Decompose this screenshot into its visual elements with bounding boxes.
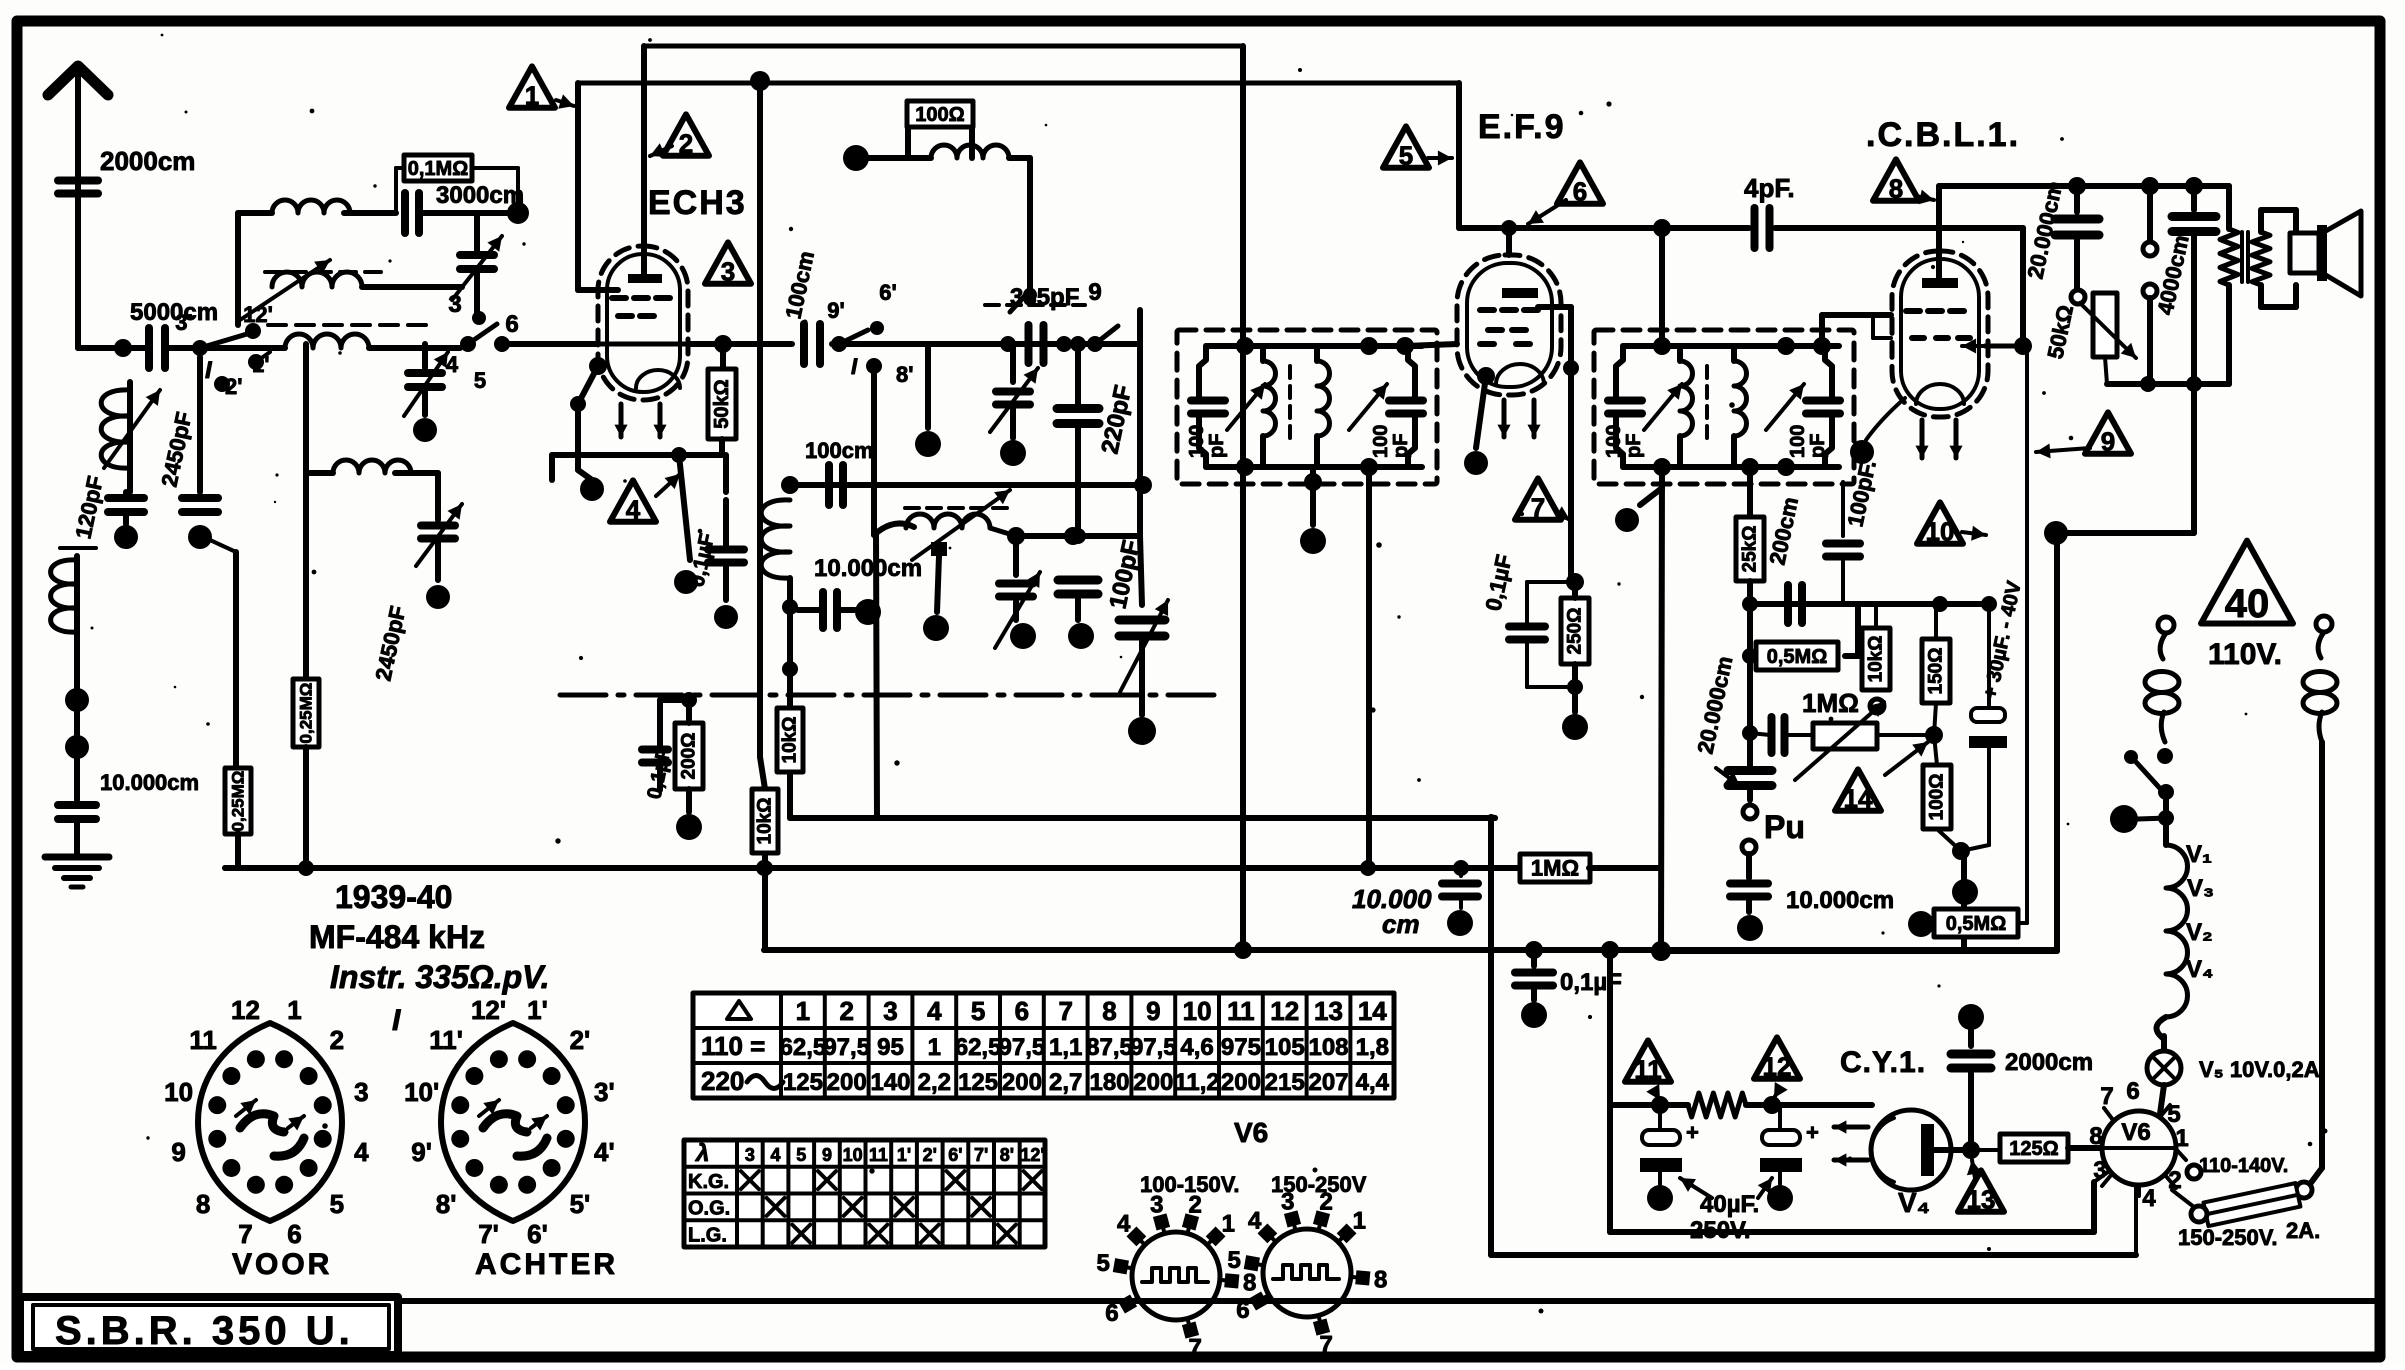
svg-text:1': 1' bbox=[527, 995, 548, 1025]
svg-text:215: 215 bbox=[1265, 1069, 1305, 1096]
svg-text:4: 4 bbox=[771, 1145, 781, 1165]
svg-text:8: 8 bbox=[1889, 173, 1903, 203]
svg-text:+: + bbox=[1686, 1120, 1699, 1145]
svg-text:14: 14 bbox=[1844, 783, 1873, 813]
svg-text:10.000cm: 10.000cm bbox=[100, 770, 199, 795]
svg-text:1939-40: 1939-40 bbox=[335, 879, 452, 915]
svg-text:10.000cm: 10.000cm bbox=[1786, 887, 1894, 914]
svg-text:V₂: V₂ bbox=[2186, 919, 2213, 946]
svg-text:cm: cm bbox=[1382, 909, 1420, 939]
svg-text:4pF.: 4pF. bbox=[1744, 173, 1795, 203]
svg-text:8': 8' bbox=[896, 362, 913, 387]
svg-text:10kΩ: 10kΩ bbox=[1866, 636, 1887, 683]
svg-text:13: 13 bbox=[1314, 996, 1343, 1026]
svg-text:200: 200 bbox=[1133, 1069, 1173, 1096]
svg-text:4: 4 bbox=[1117, 1211, 1131, 1238]
svg-text:1,8: 1,8 bbox=[1356, 1034, 1389, 1061]
svg-text:3': 3' bbox=[175, 310, 192, 335]
svg-text:2: 2 bbox=[1188, 1192, 1201, 1219]
svg-text:108: 108 bbox=[1308, 1034, 1348, 1061]
svg-text:125: 125 bbox=[958, 1069, 998, 1096]
svg-text:105: 105 bbox=[1265, 1034, 1305, 1061]
svg-text:4: 4 bbox=[354, 1137, 369, 1167]
svg-text:9': 9' bbox=[827, 298, 844, 323]
svg-text:pF: pF bbox=[1390, 434, 1412, 458]
svg-text:8: 8 bbox=[196, 1189, 210, 1219]
svg-text:1: 1 bbox=[1222, 1211, 1235, 1238]
svg-text:207: 207 bbox=[1308, 1069, 1348, 1096]
svg-text:11: 11 bbox=[869, 1145, 888, 1165]
svg-text:1: 1 bbox=[928, 1034, 941, 1061]
svg-text:0,1MΩ: 0,1MΩ bbox=[408, 158, 469, 180]
svg-text:250V.: 250V. bbox=[1690, 1217, 1751, 1244]
svg-text:2,2: 2,2 bbox=[918, 1069, 951, 1096]
svg-text:12': 12' bbox=[1020, 1145, 1044, 1165]
svg-text:200: 200 bbox=[1002, 1069, 1042, 1096]
svg-text:C.Y.1.: C.Y.1. bbox=[1840, 1046, 1926, 1079]
svg-text:2: 2 bbox=[1319, 1189, 1332, 1216]
svg-text:ECH3: ECH3 bbox=[648, 184, 747, 222]
svg-text:1: 1 bbox=[525, 80, 539, 110]
svg-text:pF: pF bbox=[1206, 434, 1228, 458]
svg-text:97,5: 97,5 bbox=[823, 1034, 870, 1061]
svg-text:8: 8 bbox=[1243, 1269, 1256, 1296]
svg-text:V6: V6 bbox=[1234, 1117, 1268, 1148]
svg-text:50kΩ: 50kΩ bbox=[711, 379, 733, 428]
svg-text:7': 7' bbox=[478, 1219, 499, 1249]
svg-text:S.B.R. 350 U.: S.B.R. 350 U. bbox=[55, 1309, 354, 1353]
svg-text:7': 7' bbox=[974, 1145, 988, 1165]
svg-text:9': 9' bbox=[411, 1137, 432, 1167]
svg-text:V₃: V₃ bbox=[2187, 875, 2214, 902]
svg-text:3: 3 bbox=[721, 256, 735, 286]
svg-text:180: 180 bbox=[1089, 1069, 1129, 1096]
svg-text:95: 95 bbox=[877, 1034, 904, 1061]
svg-text:1': 1' bbox=[897, 1145, 911, 1165]
svg-text:1MΩ: 1MΩ bbox=[1802, 688, 1859, 718]
svg-text:9: 9 bbox=[1088, 279, 1101, 306]
svg-text:100: 100 bbox=[1370, 425, 1392, 458]
svg-text:11': 11' bbox=[429, 1025, 463, 1055]
svg-text:12: 12 bbox=[1763, 1051, 1792, 1081]
svg-text:2: 2 bbox=[679, 128, 693, 158]
svg-text:5: 5 bbox=[971, 996, 985, 1026]
svg-text:220: 220 bbox=[701, 1066, 744, 1096]
svg-text:10kΩ: 10kΩ bbox=[755, 798, 776, 845]
svg-text:2': 2' bbox=[570, 1025, 591, 1055]
svg-text:VOOR: VOOR bbox=[232, 1248, 332, 1281]
svg-text:3': 3' bbox=[594, 1077, 615, 1107]
svg-text:6: 6 bbox=[2126, 1078, 2139, 1105]
svg-text:2A.: 2A. bbox=[2286, 1218, 2320, 1243]
svg-text:4,6: 4,6 bbox=[1180, 1034, 1213, 1061]
svg-text:E.F.9: E.F.9 bbox=[1478, 108, 1565, 146]
svg-text:97,5: 97,5 bbox=[1130, 1034, 1177, 1061]
svg-text:5: 5 bbox=[796, 1145, 806, 1165]
svg-text:110 =: 110 = bbox=[701, 1031, 765, 1061]
svg-text:2,7: 2,7 bbox=[1049, 1069, 1082, 1096]
svg-text:11: 11 bbox=[189, 1025, 217, 1055]
svg-text:3000cm: 3000cm bbox=[436, 182, 524, 209]
svg-text:7: 7 bbox=[1531, 492, 1545, 522]
svg-text:110V.: 110V. bbox=[2208, 638, 2282, 671]
svg-text:V₅ 10V.0,2A: V₅ 10V.0,2A bbox=[2199, 1057, 2320, 1082]
svg-text:9: 9 bbox=[822, 1145, 832, 1165]
svg-text:2000cm: 2000cm bbox=[100, 146, 195, 176]
svg-text:1,1: 1,1 bbox=[1049, 1034, 1082, 1061]
svg-text:0,25MΩ: 0,25MΩ bbox=[297, 683, 316, 744]
svg-text:6: 6 bbox=[287, 1219, 301, 1249]
svg-text:Pu: Pu bbox=[1764, 809, 1805, 845]
svg-text:6': 6' bbox=[527, 1219, 548, 1249]
svg-text:6: 6 bbox=[1015, 996, 1029, 1026]
svg-text:4: 4 bbox=[2142, 1185, 2156, 1212]
svg-text:ACHTER: ACHTER bbox=[475, 1248, 618, 1281]
svg-text:100: 100 bbox=[1787, 425, 1809, 458]
svg-text:62,5: 62,5 bbox=[955, 1034, 1002, 1061]
svg-text:10: 10 bbox=[164, 1077, 193, 1107]
svg-text:+: + bbox=[1806, 1120, 1819, 1145]
svg-text:4: 4 bbox=[1248, 1208, 1262, 1235]
svg-text:L.G.: L.G. bbox=[688, 1224, 727, 1246]
svg-text:O.G.: O.G. bbox=[688, 1198, 730, 1220]
svg-text:6': 6' bbox=[948, 1145, 962, 1165]
svg-text:8: 8 bbox=[1374, 1266, 1387, 1293]
svg-text:0,25MΩ: 0,25MΩ bbox=[229, 771, 248, 832]
svg-text:V₄: V₄ bbox=[2186, 956, 2213, 983]
svg-text:150-250V.: 150-250V. bbox=[2178, 1225, 2278, 1250]
svg-text:87,5: 87,5 bbox=[1086, 1034, 1133, 1061]
svg-text:7: 7 bbox=[1058, 996, 1072, 1026]
svg-text:10.000cm: 10.000cm bbox=[814, 555, 922, 582]
svg-text:125Ω: 125Ω bbox=[2009, 1138, 2058, 1160]
svg-text:975: 975 bbox=[1221, 1034, 1261, 1061]
svg-text:I: I bbox=[851, 354, 858, 379]
svg-text:1MΩ: 1MΩ bbox=[1531, 856, 1579, 881]
svg-text:1: 1 bbox=[287, 995, 301, 1025]
svg-text:14: 14 bbox=[1358, 996, 1387, 1026]
svg-text:8: 8 bbox=[1102, 996, 1116, 1026]
svg-text:4': 4' bbox=[594, 1137, 615, 1167]
svg-text:3: 3 bbox=[883, 996, 897, 1026]
svg-text:9: 9 bbox=[2101, 426, 2115, 456]
svg-text:2: 2 bbox=[330, 1025, 344, 1055]
svg-text:200: 200 bbox=[827, 1069, 867, 1096]
svg-text:12': 12' bbox=[471, 995, 506, 1025]
svg-text:5000cm: 5000cm bbox=[130, 299, 218, 326]
svg-text:11,2: 11,2 bbox=[1174, 1069, 1219, 1096]
svg-text:5: 5 bbox=[330, 1189, 344, 1219]
svg-text:7: 7 bbox=[2100, 1083, 2113, 1110]
svg-text:11: 11 bbox=[1634, 1054, 1662, 1084]
svg-text:110-140V.: 110-140V. bbox=[2199, 1155, 2288, 1177]
svg-text:V₄: V₄ bbox=[1898, 1187, 1930, 1218]
svg-text:100: 100 bbox=[1603, 425, 1625, 458]
svg-text:5: 5 bbox=[2167, 1101, 2180, 1128]
svg-text:25kΩ: 25kΩ bbox=[1740, 526, 1761, 573]
svg-text:7: 7 bbox=[1188, 1334, 1201, 1361]
svg-text:150Ω: 150Ω bbox=[1926, 648, 1947, 695]
svg-text:100: 100 bbox=[1186, 425, 1208, 458]
svg-text:13: 13 bbox=[1967, 1184, 1996, 1214]
svg-text:1: 1 bbox=[796, 996, 810, 1026]
svg-text:5': 5' bbox=[570, 1189, 591, 1219]
svg-text:6: 6 bbox=[1573, 176, 1587, 206]
svg-text:6': 6' bbox=[879, 280, 896, 305]
svg-text:100Ω: 100Ω bbox=[915, 104, 964, 126]
svg-text:40: 40 bbox=[2225, 582, 2270, 626]
svg-text:2': 2' bbox=[923, 1145, 937, 1165]
svg-text:K.G.: K.G. bbox=[688, 1171, 729, 1193]
svg-text:5: 5 bbox=[1399, 140, 1413, 170]
svg-text:4: 4 bbox=[927, 996, 942, 1026]
svg-text:pF: pF bbox=[1807, 434, 1829, 458]
svg-text:200Ω: 200Ω bbox=[679, 733, 700, 780]
svg-text:8': 8' bbox=[1000, 1145, 1014, 1165]
svg-text:V6: V6 bbox=[2121, 1119, 2150, 1146]
svg-text:12: 12 bbox=[1270, 996, 1299, 1026]
svg-text:125: 125 bbox=[783, 1069, 823, 1096]
svg-text:V₁: V₁ bbox=[2186, 841, 2212, 868]
svg-text:10kΩ: 10kΩ bbox=[780, 717, 801, 764]
svg-text:200: 200 bbox=[1221, 1069, 1261, 1096]
svg-text:5: 5 bbox=[1227, 1247, 1240, 1274]
svg-text:0,5MΩ: 0,5MΩ bbox=[1767, 646, 1828, 668]
svg-text:7: 7 bbox=[1319, 1331, 1332, 1358]
svg-text:3: 3 bbox=[1281, 1189, 1294, 1216]
svg-text:10: 10 bbox=[1183, 996, 1212, 1026]
svg-text:10': 10' bbox=[404, 1077, 439, 1107]
svg-text:10: 10 bbox=[1926, 516, 1955, 546]
svg-text:10: 10 bbox=[843, 1145, 863, 1165]
svg-text:6: 6 bbox=[505, 311, 518, 338]
svg-text:6: 6 bbox=[1105, 1300, 1118, 1327]
svg-text:5: 5 bbox=[474, 368, 486, 393]
svg-text:I: I bbox=[392, 1004, 401, 1037]
svg-text:.C.B.L.1.: .C.B.L.1. bbox=[1866, 116, 2020, 154]
svg-text:MF-484 kHz: MF-484 kHz bbox=[309, 919, 485, 955]
svg-text:11: 11 bbox=[1227, 996, 1255, 1026]
svg-text:2000cm: 2000cm bbox=[2005, 1049, 2093, 1076]
svg-text:5: 5 bbox=[1096, 1250, 1109, 1277]
svg-text:3: 3 bbox=[745, 1145, 755, 1165]
svg-text:4,4: 4,4 bbox=[1356, 1069, 1390, 1096]
svg-text:0,5MΩ: 0,5MΩ bbox=[1946, 913, 2007, 935]
svg-text:3: 3 bbox=[354, 1077, 368, 1107]
svg-text:100cm: 100cm bbox=[805, 438, 874, 463]
svg-text:4: 4 bbox=[626, 494, 641, 524]
svg-text:100Ω: 100Ω bbox=[1927, 774, 1948, 821]
svg-text:pF: pF bbox=[1623, 434, 1645, 458]
svg-text:1: 1 bbox=[1353, 1208, 1366, 1235]
svg-text:140: 140 bbox=[870, 1069, 910, 1096]
svg-text:λ: λ bbox=[694, 1140, 709, 1167]
svg-text:8': 8' bbox=[436, 1189, 457, 1219]
svg-text:12: 12 bbox=[231, 995, 260, 1025]
svg-text:6: 6 bbox=[1236, 1297, 1249, 1324]
svg-text:3: 3 bbox=[1150, 1192, 1163, 1219]
svg-text:250Ω: 250Ω bbox=[1565, 608, 1586, 655]
svg-text:Instr. 335Ω.pV.: Instr. 335Ω.pV. bbox=[330, 959, 549, 995]
svg-text:97,5: 97,5 bbox=[999, 1034, 1046, 1061]
svg-text:7: 7 bbox=[238, 1219, 252, 1249]
svg-text:9: 9 bbox=[1146, 996, 1160, 1026]
svg-text:9: 9 bbox=[171, 1137, 185, 1167]
svg-text:62,5: 62,5 bbox=[780, 1034, 827, 1061]
svg-text:2: 2 bbox=[839, 996, 853, 1026]
